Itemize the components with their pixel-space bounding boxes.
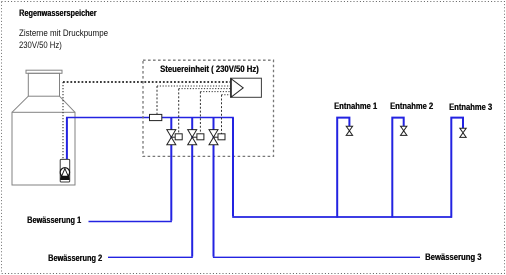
wire: branch pipe to Bewässerung 2	[191, 118, 193, 257]
tap valve Entnahme 3	[460, 128, 466, 137]
sensor (flow/pressure switch) on main pipe	[150, 114, 162, 120]
wire: Entnahme 3 riser pipe	[451, 118, 463, 218]
wire: control line to sensor (h1)	[157, 85, 231, 87]
tank: cistern (Regenwasserspeicher)	[12, 70, 75, 185]
controller amplifier symbol	[231, 78, 262, 97]
wire: pump power line vertical drop to pump	[62, 82, 64, 160]
label: Entnahme 3	[449, 102, 492, 112]
wire: control line to valve 3 (h4)	[222, 94, 231, 96]
wire: Entnahme 1 riser pipe	[337, 118, 349, 218]
wire: main riser to distribution line	[232, 118, 234, 217]
wire: pump power line 230V (bold dotted horizontal)	[63, 81, 231, 83]
solenoid valve V2	[188, 130, 204, 145]
label: Steuereinheit ( 230V/50 Hz)	[160, 64, 259, 74]
pump (Druckpumpe)	[60, 159, 69, 182]
label: Entnahme 2	[390, 101, 433, 111]
label: Bewässerung 3	[425, 252, 481, 262]
label: Bewässerung 2	[48, 253, 102, 263]
wire: pump discharge pipe riser	[66, 118, 68, 161]
wire: branch pipe to Bewässerung 1	[170, 118, 172, 221]
label: Regenwasserspeicher	[19, 8, 96, 18]
control unit U1 (Steuereinheit) dashed enclosure	[143, 60, 274, 156]
wire: Entnahme 2 riser pipe	[392, 118, 403, 218]
label: Entnahme 1	[334, 101, 377, 111]
wire: control line to valve 2 (h3)	[200, 91, 230, 93]
label: 230V/50 Hz)	[19, 40, 62, 50]
wire: main supply pipe horizontal	[66, 117, 234, 119]
wire: control line to valve 1 (h2)	[179, 88, 231, 90]
solenoid valve V3	[209, 130, 225, 145]
label: Bewässerung 1	[27, 215, 81, 225]
tap valve Entnahme 1	[346, 126, 352, 135]
solenoid valve V1	[167, 130, 182, 145]
tap valve Entnahme 2	[401, 126, 407, 135]
wire: branch pipe to Bewässerung 3	[213, 118, 215, 257]
label: Zisterne mit Druckpumpe	[19, 28, 108, 38]
